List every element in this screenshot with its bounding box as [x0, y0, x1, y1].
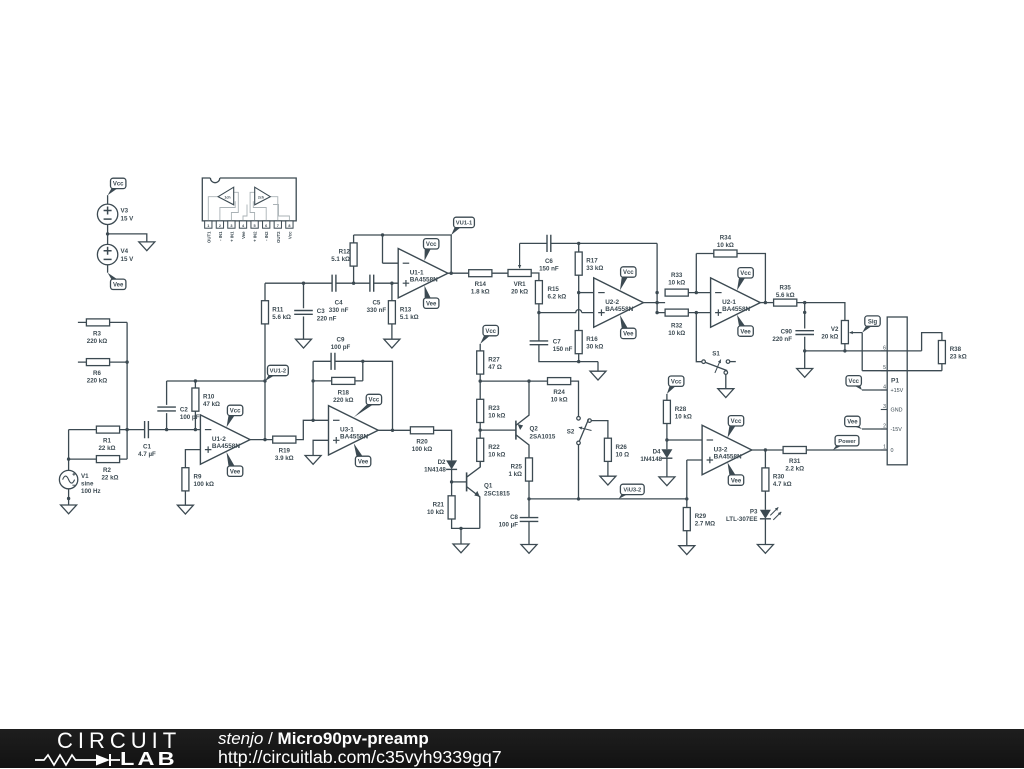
- wire: [666, 458, 668, 477]
- svg-text:U3-1: U3-1: [340, 427, 354, 434]
- svg-text:+15V: +15V: [891, 388, 904, 394]
- ground: [384, 339, 400, 348]
- svg-text:P1: P1: [891, 377, 899, 384]
- svg-text:Vee: Vee: [113, 283, 124, 289]
- svg-text:47 kΩ: 47 kΩ: [203, 401, 220, 408]
- Vcc flag (P1 pin4): [854, 385, 862, 390]
- svg-text:U1-1: U1-1: [410, 270, 424, 277]
- Vcc flag (U3-2): [728, 425, 736, 437]
- resistor R17: [578, 243, 580, 330]
- node junction V3/V4: [106, 232, 109, 235]
- svg-text:220 kΩ: 220 kΩ: [87, 338, 107, 345]
- svg-text:100 kΩ: 100 kΩ: [412, 446, 432, 453]
- wire: [862, 428, 887, 430]
- wire: [185, 450, 200, 468]
- svg-text:U1-2: U1-2: [212, 436, 226, 443]
- svg-text:R27: R27: [488, 357, 500, 364]
- svg-text:VR1: VR1: [514, 281, 527, 288]
- wire: [184, 491, 186, 505]
- ground: [797, 369, 813, 378]
- svg-text:GND: GND: [891, 408, 903, 414]
- switch S2: [578, 417, 580, 421]
- svg-text:C7: C7: [553, 338, 561, 345]
- svg-text:+ IN1: + IN1: [229, 231, 234, 242]
- wire: [451, 469, 453, 495]
- svg-text:R19: R19: [279, 448, 291, 455]
- Vcc flag (U1-1): [425, 248, 432, 260]
- svg-text:100 µF: 100 µF: [499, 521, 519, 528]
- svg-text:R35: R35: [780, 285, 792, 292]
- wire feedback U1-1: [354, 235, 452, 273]
- wire U2-2 plus (with hop): [539, 310, 594, 313]
- wire: [68, 430, 70, 471]
- op-amp U2-1: [711, 278, 761, 327]
- Vee flag (U2-1): [737, 315, 745, 327]
- Vee flag (U3-2): [728, 462, 736, 475]
- ground: [718, 389, 734, 398]
- svg-text:6: 6: [265, 224, 267, 228]
- wire: [528, 521, 530, 544]
- ground: [600, 476, 616, 485]
- svg-text:R14: R14: [475, 281, 487, 288]
- svg-text:1N4148: 1N4148: [424, 467, 446, 474]
- svg-text:sine: sine: [81, 481, 94, 488]
- connector P1: [887, 317, 907, 465]
- ground: [521, 545, 537, 554]
- svg-text:2.2 kΩ: 2.2 kΩ: [785, 466, 804, 473]
- capacitor C6: [547, 235, 551, 252]
- svg-text:10 kΩ: 10 kΩ: [427, 509, 444, 516]
- VU1-1 flag: [451, 227, 461, 235]
- svg-text:BA4558N: BA4558N: [410, 277, 438, 284]
- wire: [725, 374, 727, 388]
- svg-text:BA4558N: BA4558N: [722, 306, 750, 313]
- svg-text:OUT1: OUT1: [206, 231, 211, 243]
- resistor R33: [665, 289, 688, 296]
- svg-text:R29: R29: [695, 513, 707, 520]
- ground: [679, 546, 695, 555]
- svg-text:10 kΩ: 10 kΩ: [668, 330, 685, 337]
- capacitor C2: [157, 407, 176, 411]
- Vcc flag (R28): [667, 386, 676, 394]
- svg-text:BA4558N: BA4558N: [714, 453, 742, 460]
- svg-text:330 nF: 330 nF: [329, 307, 349, 314]
- svg-text:- IN1: - IN1: [218, 231, 223, 241]
- svg-text:R30: R30: [773, 474, 785, 481]
- svg-text:10 Ω: 10 Ω: [616, 451, 630, 458]
- wire node A (U1-2 minus): [167, 429, 201, 431]
- diode D2: [446, 460, 457, 469]
- wire U3-1 output: [378, 429, 410, 431]
- svg-text:R10: R10: [203, 394, 215, 401]
- resistor R15: [535, 281, 542, 304]
- svg-text:Vcc: Vcc: [426, 242, 437, 248]
- svg-text:R22: R22: [488, 444, 500, 451]
- svg-text:Power: Power: [838, 439, 856, 445]
- wire main node: [265, 282, 398, 284]
- Vee flag (U1-2): [227, 452, 235, 467]
- resistor R35: [774, 299, 797, 306]
- resistor R38: [938, 341, 945, 364]
- svg-text:10 kΩ: 10 kΩ: [488, 451, 505, 458]
- svg-text:1: 1: [207, 224, 209, 228]
- svg-text:Vee: Vee: [740, 329, 751, 335]
- resistor R23: [479, 381, 481, 438]
- svg-text:R28: R28: [675, 406, 687, 413]
- op-amp U3-2: [702, 425, 752, 474]
- svg-text:2: 2: [219, 224, 221, 228]
- svg-text:Vee: Vee: [847, 420, 858, 426]
- resistor R25: [526, 458, 533, 481]
- wire ViU3-2 net: [529, 445, 702, 499]
- svg-text:Vcc: Vcc: [369, 398, 380, 404]
- svg-text:Vcc: Vcc: [671, 379, 682, 385]
- ground: [757, 545, 773, 554]
- svg-text:R34: R34: [720, 235, 732, 242]
- wire U1-1 output: [448, 272, 469, 274]
- wire: [434, 430, 452, 460]
- svg-text:7: 7: [277, 224, 279, 228]
- ground: [590, 371, 606, 380]
- svg-text:R6: R6: [93, 370, 101, 377]
- svg-text:R20: R20: [416, 438, 428, 445]
- wire U3-2 minus: [667, 439, 702, 441]
- svg-text:6.2 kΩ: 6.2 kΩ: [548, 294, 567, 301]
- Vcc flag (U2-2): [620, 277, 628, 291]
- ground: [61, 505, 77, 514]
- CircuitLab logo: [34, 729, 194, 768]
- svg-text:100 pF: 100 pF: [180, 414, 200, 421]
- svg-text:10 kΩ: 10 kΩ: [675, 413, 692, 420]
- svg-text:10 kΩ: 10 kΩ: [488, 412, 505, 419]
- svg-text:4.7 µF: 4.7 µF: [138, 451, 156, 458]
- svg-text:2ch: 2ch: [258, 196, 264, 200]
- Vee flag (U1-1): [425, 286, 432, 299]
- svg-text:220 nF: 220 nF: [772, 336, 792, 343]
- Sig flag: [862, 326, 872, 333]
- svg-text:15 V: 15 V: [121, 256, 135, 263]
- Vee flag (P1 pin2): [853, 426, 862, 429]
- Vee flag (U3-1): [354, 443, 363, 456]
- svg-text:- IN2: - IN2: [264, 231, 269, 241]
- svg-text:C8: C8: [510, 514, 518, 521]
- svg-text:R12: R12: [339, 249, 351, 256]
- svg-text:R21: R21: [433, 501, 445, 508]
- svg-text:C6: C6: [545, 258, 553, 265]
- svg-text:C1: C1: [143, 443, 151, 450]
- VU1-2 flag: [265, 375, 275, 381]
- switch S1: [702, 360, 706, 364]
- Vee flag (V4): [108, 273, 118, 280]
- svg-text:LTL-307EE: LTL-307EE: [726, 516, 758, 523]
- diode D4: [661, 449, 672, 458]
- svg-text:20 kΩ: 20 kΩ: [511, 289, 528, 296]
- svg-text:D4: D4: [653, 448, 661, 455]
- resistor R1: [69, 429, 128, 431]
- Vcc flag (R27): [480, 335, 490, 344]
- svg-text:R11: R11: [272, 306, 284, 313]
- svg-text:R13: R13: [400, 306, 412, 313]
- resistor R24: [548, 378, 571, 385]
- svg-text:100 kΩ: 100 kΩ: [194, 481, 214, 488]
- wire: [607, 461, 609, 476]
- svg-text:5.1 kΩ: 5.1 kΩ: [331, 256, 350, 263]
- svg-text:BA4558N: BA4558N: [212, 443, 240, 450]
- svg-text:10 kΩ: 10 kΩ: [551, 397, 568, 404]
- svg-text:R24: R24: [553, 389, 565, 396]
- resistor R20: [410, 427, 433, 434]
- svg-text:D2: D2: [438, 459, 446, 466]
- svg-text:Vee: Vee: [358, 460, 369, 466]
- wire: [688, 254, 710, 362]
- wire: [797, 303, 845, 321]
- resistor R14: [469, 270, 492, 277]
- wire bias rail: [480, 380, 547, 382]
- potentiometer V2: [841, 321, 848, 344]
- svg-text:U2-2: U2-2: [605, 299, 619, 306]
- capacitor C9: [331, 353, 335, 370]
- resistor R3: [78, 321, 127, 323]
- svg-text:1ch: 1ch: [224, 196, 230, 200]
- svg-text:22 kΩ: 22 kΩ: [98, 445, 115, 452]
- svg-text:22 kΩ: 22 kΩ: [101, 475, 118, 482]
- svg-text:5.1 kΩ: 5.1 kΩ: [400, 314, 419, 321]
- resistor R26: [604, 438, 611, 461]
- svg-text:-15V: -15V: [891, 427, 903, 433]
- resistor R34: [696, 254, 765, 303]
- svg-text:Vee: Vee: [230, 469, 241, 475]
- voltage source V1 (sine): [59, 470, 77, 488]
- svg-text:150 nF: 150 nF: [553, 346, 573, 353]
- op-amp U2-2: [594, 278, 644, 327]
- resistor R13: [391, 283, 393, 339]
- svg-text:220 kΩ: 220 kΩ: [87, 378, 107, 385]
- svg-text:S1: S1: [712, 351, 720, 358]
- svg-text:C3: C3: [317, 308, 325, 315]
- svg-text:Q2: Q2: [530, 426, 539, 433]
- svg-text:P3: P3: [750, 508, 758, 515]
- resistor R28: [666, 394, 668, 449]
- wire U2-1 output: [760, 302, 773, 304]
- ground: [453, 544, 469, 553]
- svg-text:2.7 MΩ: 2.7 MΩ: [695, 521, 715, 528]
- ground: [296, 339, 312, 348]
- wire feedback U3-1: [313, 361, 392, 430]
- svg-text:30 kΩ: 30 kΩ: [586, 344, 603, 351]
- svg-text:5: 5: [254, 224, 256, 228]
- wire: [539, 345, 598, 372]
- svg-text:C90: C90: [781, 328, 793, 335]
- svg-text:V3: V3: [121, 208, 129, 215]
- resistor R29: [686, 507, 688, 509]
- svg-text:C5: C5: [372, 299, 380, 306]
- wire pin6/pin5 crossing: [887, 351, 907, 371]
- svg-text:3: 3: [230, 224, 232, 228]
- svg-text:100 pF: 100 pF: [331, 344, 351, 351]
- capacitor C4: [332, 275, 336, 292]
- capacitor C90: [804, 303, 806, 369]
- ground: [177, 505, 193, 514]
- wire: [296, 420, 329, 439]
- svg-text:R26: R26: [616, 444, 628, 451]
- Power flag: [833, 445, 843, 450]
- svg-text:5.6 kΩ: 5.6 kΩ: [272, 314, 291, 321]
- wire VU1-2 bus: [264, 283, 266, 439]
- wire U3-2 output: [752, 449, 783, 451]
- resistor R11: [262, 301, 269, 324]
- wire: [107, 265, 109, 273]
- svg-text:220 kΩ: 220 kΩ: [333, 397, 353, 404]
- svg-text:V2: V2: [831, 326, 839, 333]
- svg-text:6: 6: [883, 345, 886, 351]
- svg-text:Sig: Sig: [868, 319, 878, 325]
- svg-text:R31: R31: [789, 458, 801, 465]
- IC package BA4558 pinout drawing: [202, 178, 296, 243]
- Vee flag (U2-2): [620, 315, 628, 329]
- svg-text:Vee: Vee: [241, 231, 246, 239]
- wire: [68, 489, 70, 505]
- svg-text:Vcc: Vcc: [113, 182, 124, 188]
- capacitor C5: [370, 275, 374, 292]
- wire U1-2 output: [250, 439, 273, 441]
- wire: [922, 333, 942, 371]
- svg-text:Vcc: Vcc: [740, 271, 751, 277]
- capacitor C7: [530, 341, 549, 345]
- wire: [686, 499, 688, 546]
- svg-text:10 kΩ: 10 kΩ: [668, 280, 685, 287]
- svg-text:C9: C9: [337, 336, 345, 343]
- svg-text:23 kΩ: 23 kΩ: [950, 354, 967, 361]
- transistor Q1 2SC1815: [452, 481, 467, 483]
- svg-text:150 nF: 150 nF: [539, 266, 559, 273]
- svg-text:V4: V4: [121, 248, 129, 255]
- op-amp U1-2: [200, 415, 250, 464]
- svg-text:R38: R38: [950, 346, 962, 353]
- wire U2-2 output: [643, 243, 665, 312]
- svg-text:VU1-2: VU1-2: [270, 369, 286, 375]
- svg-text:33 kΩ: 33 kΩ: [586, 265, 603, 272]
- wire: [805, 333, 942, 371]
- resistor R12: [353, 235, 355, 283]
- svg-text:15 V: 15 V: [121, 216, 135, 223]
- wire: [764, 519, 766, 545]
- svg-text:R17: R17: [586, 258, 598, 265]
- svg-text:Vee: Vee: [623, 332, 634, 338]
- svg-text:R2: R2: [103, 467, 111, 474]
- wire: [591, 421, 608, 439]
- wire U2-2 minus: [579, 292, 594, 294]
- wire: [492, 272, 508, 274]
- ground: [659, 477, 675, 486]
- Vcc flag (V3): [108, 188, 118, 195]
- wire: [806, 449, 887, 451]
- svg-text:Vcc: Vcc: [848, 379, 859, 385]
- svg-text:5: 5: [883, 365, 886, 371]
- Vcc flag (U2-1): [737, 277, 745, 290]
- resistor R19: [273, 436, 296, 443]
- svg-text:Vcc: Vcc: [485, 329, 496, 335]
- svg-text:R25: R25: [511, 464, 523, 471]
- svg-text:S2: S2: [567, 429, 575, 436]
- Vcc flag (U3-1): [354, 404, 374, 417]
- svg-text:VU1-1: VU1-1: [456, 221, 473, 227]
- svg-text:220 nF: 220 nF: [317, 315, 337, 322]
- wire feedback U1-2: [167, 381, 265, 430]
- svg-text:2SA1015: 2SA1015: [530, 434, 556, 441]
- svg-text:8: 8: [288, 224, 290, 228]
- svg-text:5.6 kΩ: 5.6 kΩ: [776, 292, 795, 299]
- resistor R22: [477, 438, 484, 461]
- svg-text:1.8 kΩ: 1.8 kΩ: [471, 289, 490, 296]
- svg-text:V1: V1: [81, 473, 89, 480]
- wire: [108, 225, 147, 245]
- wire: [126, 322, 128, 459]
- svg-text:Vee: Vee: [426, 301, 437, 307]
- svg-text:100 Hz: 100 Hz: [81, 488, 101, 495]
- wire: [452, 519, 480, 544]
- svg-text:2SC1815: 2SC1815: [484, 491, 510, 498]
- resistor R21: [448, 496, 455, 519]
- svg-text:+ IN2: + IN2: [253, 231, 258, 242]
- svg-text:1N4148: 1N4148: [640, 456, 662, 463]
- svg-text:Vee: Vee: [731, 478, 742, 484]
- svg-text:R1: R1: [103, 438, 111, 445]
- svg-text:BA4558N: BA4558N: [605, 306, 633, 313]
- svg-text:R15: R15: [548, 286, 560, 293]
- capacitor C8: [520, 518, 539, 522]
- ground: [139, 242, 155, 251]
- resistor R30: [764, 450, 766, 510]
- svg-text:3.9 kΩ: 3.9 kΩ: [275, 455, 294, 462]
- svg-text:C4: C4: [335, 299, 343, 306]
- svg-text:U2-1: U2-1: [722, 299, 736, 306]
- svg-text:R18: R18: [338, 389, 350, 396]
- svg-text:1 kΩ: 1 kΩ: [508, 471, 522, 478]
- svg-text:R16: R16: [586, 336, 598, 343]
- resistor R6: [78, 361, 127, 363]
- svg-text:Vcc: Vcc: [287, 231, 292, 239]
- voltage source V4: [97, 244, 117, 264]
- resistor R27: [479, 344, 481, 381]
- svg-text:R33: R33: [671, 272, 683, 279]
- wire: [528, 481, 530, 517]
- wire: [571, 381, 579, 416]
- transistor Q2 2SA1015: [480, 429, 516, 431]
- svg-text:R9: R9: [194, 473, 202, 480]
- wire C6 feedback: [520, 242, 658, 244]
- svg-text:0: 0: [891, 448, 894, 454]
- wire: [538, 304, 540, 341]
- svg-text:C2: C2: [180, 407, 188, 414]
- svg-text:OUT2: OUT2: [276, 231, 281, 243]
- capacitor C1: [127, 429, 167, 431]
- svg-text:Vcc: Vcc: [623, 270, 634, 276]
- op-amp U3-1: [329, 406, 379, 455]
- op-amp U1-1: [398, 249, 448, 298]
- svg-text:10 kΩ: 10 kΩ: [717, 242, 734, 249]
- svg-text:R3: R3: [93, 330, 101, 337]
- svg-text:R32: R32: [671, 323, 683, 330]
- wire: [862, 389, 887, 391]
- svg-text:U3-2: U3-2: [714, 446, 728, 453]
- svg-text:3: 3: [883, 404, 886, 410]
- wire: [479, 461, 481, 467]
- svg-text:Q1: Q1: [484, 483, 493, 490]
- svg-text:Vcc: Vcc: [731, 419, 742, 425]
- resistor R18: [313, 380, 363, 382]
- wire: [313, 440, 328, 455]
- svg-text:Vcc: Vcc: [230, 409, 241, 415]
